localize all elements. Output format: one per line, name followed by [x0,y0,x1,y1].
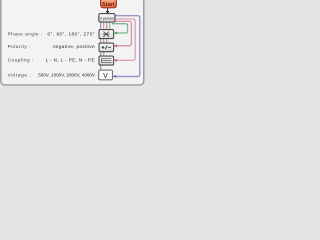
svg-text:Polarity :: Polarity : [8,44,31,49]
svg-text:L - N, L - PE, N - PE: L - N, L - PE, N - PE [46,57,95,62]
svg-text:Voltage :: Voltage : [8,72,32,77]
svg-text:negative, positive: negative, positive [53,44,95,49]
svg-text:Phase angle :: Phase angle : [8,32,43,37]
svg-text:0°, 90°, 180°, 270°: 0°, 90°, 180°, 270° [48,32,96,37]
svg-text:3 pulses: 3 pulses [100,16,115,21]
svg-text:500V, 1000V, 2000V, 4000V: 500V, 1000V, 2000V, 4000V [38,72,95,77]
svg-text:Start: Start [102,2,115,8]
svg-text:Coupling :: Coupling : [8,57,34,62]
svg-text:V: V [103,73,108,80]
